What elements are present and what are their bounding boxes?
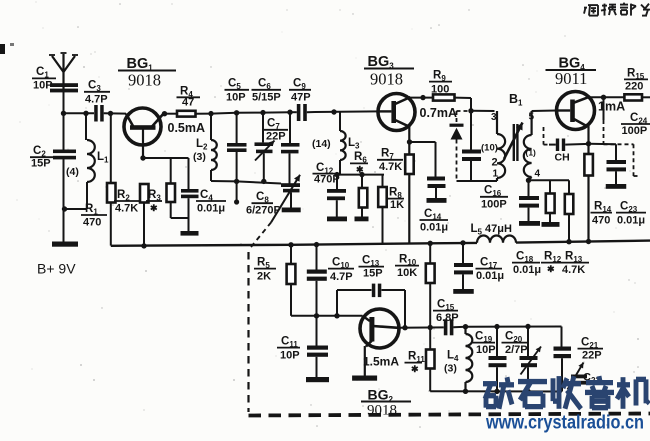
transformer B1 core xyxy=(514,124,518,161)
resistor R14 xyxy=(584,144,593,242)
wire osc tank top xyxy=(466,326,562,328)
junction BG4 emitter xyxy=(586,141,591,146)
capacitor C16 xyxy=(462,111,481,181)
dashed wire diode to node xyxy=(457,110,472,112)
resistor R12 xyxy=(546,180,555,222)
label C18 0.01u xyxy=(512,251,541,277)
rail wire xyxy=(111,241,650,246)
wire C9 to BG3 base xyxy=(315,110,378,113)
junction L4 top xyxy=(463,324,468,329)
diode D dashed top xyxy=(456,111,458,124)
wire BG1 collector junction xyxy=(162,111,167,116)
label C8 6/270P xyxy=(246,191,281,217)
battery terminal bar B+ xyxy=(52,242,78,247)
ground below C11 xyxy=(306,377,329,382)
svg-text:9018: 9018 xyxy=(370,70,403,89)
junction loop collector xyxy=(402,325,407,330)
caption 调频部分 (top right) xyxy=(584,3,650,16)
label B+ 9V xyxy=(37,261,76,277)
wire osc tank bottom xyxy=(430,389,562,395)
svg-text:0.01μ: 0.01μ xyxy=(476,270,504,282)
label (4) tap xyxy=(66,166,79,178)
label C7 22P xyxy=(264,118,289,143)
label R7 4.7K xyxy=(377,148,403,174)
junction C6 top xyxy=(260,110,265,115)
label BG1 9018 xyxy=(128,71,161,90)
junction rail C17 xyxy=(460,240,465,245)
svg-text:L3: L3 xyxy=(348,137,360,151)
inductor L5 xyxy=(477,236,516,243)
wire BG2 collector xyxy=(398,326,444,328)
label pin 3 xyxy=(491,112,497,123)
svg-text:B+ 9V: B+ 9V xyxy=(37,261,76,277)
diode D xyxy=(450,124,464,140)
label R13 4.7K xyxy=(561,251,589,277)
svg-text:100P: 100P xyxy=(481,199,507,211)
label 1.5mA xyxy=(363,355,399,369)
capacitor C11 xyxy=(307,316,328,377)
svg-text:10K: 10K xyxy=(397,267,417,279)
emitter resistor (unlabeled) xyxy=(167,158,189,218)
label CH xyxy=(555,152,570,164)
wire emitter to C23 xyxy=(589,143,617,146)
svg-text:220: 220 xyxy=(625,81,643,93)
resistor R2 xyxy=(107,183,116,203)
resistor R7 xyxy=(405,155,414,244)
svg-text:6.8P: 6.8P xyxy=(436,312,459,324)
variable capacitor C20 xyxy=(520,327,542,392)
watermark 矿石收音机 xyxy=(483,376,649,409)
node A junction xyxy=(61,111,66,116)
junction C5 top xyxy=(234,110,239,115)
capacitor C9 series xyxy=(290,104,315,121)
variable capacitor C6 xyxy=(255,113,275,182)
capacitor C15 xyxy=(444,319,466,335)
svg-text:✱: ✱ xyxy=(411,364,419,374)
label R12 star xyxy=(541,251,562,275)
label C6 5/15P xyxy=(252,78,282,104)
dashed stub left of CH xyxy=(544,127,550,145)
svg-text:0.01μ: 0.01μ xyxy=(197,203,225,215)
variable capacitor C8 xyxy=(281,183,300,207)
svg-text:100P: 100P xyxy=(622,125,648,137)
label R3 star xyxy=(146,189,162,213)
junction R6 top xyxy=(359,172,364,177)
ground below R6 xyxy=(355,217,369,222)
wire R9 to B1 node xyxy=(455,98,474,114)
junction tank bottom C5 xyxy=(234,179,239,184)
wire L3 bottom node xyxy=(337,174,384,176)
ground below C4 xyxy=(181,231,199,236)
watermark url xyxy=(485,412,644,434)
label L2 xyxy=(193,138,208,163)
wire R2 to rail xyxy=(110,203,112,246)
label BG1 line xyxy=(118,70,176,72)
svg-text:www.crystalradio.cn: www.crystalradio.cn xyxy=(485,412,644,434)
svg-text:15P: 15P xyxy=(31,158,51,170)
ground below C12 xyxy=(327,217,347,222)
label L3 xyxy=(348,137,360,151)
svg-text:CH: CH xyxy=(555,152,570,164)
capacitor C10 xyxy=(307,245,327,316)
junction L2 top xyxy=(208,111,213,116)
junction BG3 collector xyxy=(420,95,425,100)
junction L1 top xyxy=(83,111,88,116)
wire tank bottom xyxy=(211,180,237,182)
label C14 0.01u xyxy=(420,208,449,234)
label L1 xyxy=(97,151,109,165)
svg-text:✱: ✱ xyxy=(356,165,364,175)
wire collector to R4 xyxy=(163,113,177,115)
ground below BG2 emitter xyxy=(352,376,377,381)
inductor L3 xyxy=(334,112,346,175)
svg-text:4: 4 xyxy=(535,169,541,180)
wire BG2 base xyxy=(291,315,363,317)
label B1 xyxy=(509,92,523,108)
capacitor C4 xyxy=(181,158,199,231)
label C24 100P xyxy=(621,112,650,137)
svg-text:(3): (3) xyxy=(444,363,457,375)
label R10 10K xyxy=(395,254,419,280)
label R1 470 xyxy=(81,203,107,229)
svg-text:(14): (14) xyxy=(312,138,331,150)
capacitor C2 xyxy=(53,150,76,160)
label C23 0.01u xyxy=(616,201,646,227)
label 0.7mA xyxy=(420,106,458,120)
svg-text:22P: 22P xyxy=(266,131,286,143)
svg-text:(3): (3) xyxy=(193,151,206,163)
wire base node down to R2 xyxy=(110,113,112,183)
junction rail C10 xyxy=(314,242,319,247)
antenna xyxy=(49,53,78,91)
svg-text:4.7K: 4.7K xyxy=(379,161,402,173)
label C20 2/7P xyxy=(502,331,528,357)
junction C19 top xyxy=(494,324,499,329)
capacitor C13 xyxy=(372,284,382,298)
label (14) xyxy=(312,138,331,150)
label C15 6.8P xyxy=(433,299,459,325)
wire pin5 to BG4 base xyxy=(532,110,557,113)
svg-text:9018: 9018 xyxy=(128,71,161,90)
svg-text:10P: 10P xyxy=(33,80,53,92)
label C17 0.01u xyxy=(476,257,505,283)
ground below C8 xyxy=(282,208,301,213)
label R9 100 xyxy=(429,70,452,96)
svg-text:47P: 47P xyxy=(291,92,311,104)
label BG2 xyxy=(361,387,411,419)
inductor L2 xyxy=(211,114,217,181)
tuning gang dashed link xyxy=(251,223,271,248)
svg-text:470: 470 xyxy=(592,215,610,227)
junction rail R14 xyxy=(586,239,591,244)
transistor BG4 xyxy=(557,92,595,144)
resistor R5 xyxy=(287,245,296,316)
svg-text:L1: L1 xyxy=(97,151,109,165)
label L4 xyxy=(444,350,459,375)
resistor R11 xyxy=(426,328,435,392)
capacitor C5 xyxy=(227,113,247,182)
wire tank bottom to C8 xyxy=(237,181,281,183)
svg-text:2: 2 xyxy=(492,157,498,169)
svg-text:470P: 470P xyxy=(314,174,340,186)
wire antenna to node A xyxy=(63,92,65,113)
svg-text:L5: L5 xyxy=(471,223,483,237)
capacitor C21 xyxy=(554,347,572,392)
wire collector to R15 xyxy=(588,96,624,98)
svg-text:5: 5 xyxy=(529,112,535,123)
capacitor C18 xyxy=(519,180,539,221)
junction rail R13 xyxy=(566,239,571,244)
svg-text:100: 100 xyxy=(431,84,449,96)
wire emitter node right xyxy=(143,157,189,159)
label (10) xyxy=(481,143,498,154)
wire R4 to L2 node xyxy=(196,113,212,115)
feedback loop wire xyxy=(337,290,405,328)
svg-text:0.7mA: 0.7mA xyxy=(420,106,458,120)
capacitor CH xyxy=(549,139,589,152)
resistor R13 xyxy=(565,180,574,242)
wire emitter to C14 xyxy=(410,142,436,177)
wire R3 to rail xyxy=(141,203,146,249)
label C4 0.01u xyxy=(196,189,226,215)
label C16 100P xyxy=(480,185,508,211)
svg-text:0.01μ: 0.01μ xyxy=(420,222,448,234)
svg-text:L2: L2 xyxy=(196,138,208,152)
capacitor C1 xyxy=(50,83,78,92)
svg-text:15P: 15P xyxy=(363,268,383,280)
resistor R8 xyxy=(378,175,387,244)
capacitor C14 xyxy=(427,177,446,199)
capacitor C23 xyxy=(607,144,627,184)
svg-text:47μH: 47μH xyxy=(485,223,512,235)
label BG3 xyxy=(364,54,414,89)
capacitor C3 xyxy=(94,105,104,122)
svg-text:2K: 2K xyxy=(257,271,271,283)
wire C3 to base junction xyxy=(104,112,126,114)
label C1 10P xyxy=(32,66,56,92)
svg-text:B1: B1 xyxy=(509,92,523,108)
svg-text:0.01μ: 0.01μ xyxy=(513,264,541,276)
svg-text:C1: C1 xyxy=(36,66,49,80)
label BG4 xyxy=(546,56,597,89)
transformer B1 tuning arrow xyxy=(504,123,523,160)
svg-text:1K: 1K xyxy=(390,199,404,211)
label C9 47P xyxy=(289,78,311,104)
junction rail R5 xyxy=(288,242,293,247)
label 1mA xyxy=(598,100,625,114)
scan edge mark xyxy=(0,43,14,54)
svg-text:4.7K: 4.7K xyxy=(562,264,585,276)
label C22 xyxy=(583,372,600,386)
junction BG1 base node xyxy=(108,111,113,116)
svg-text:47: 47 xyxy=(182,97,194,109)
junction base C10 xyxy=(314,313,319,318)
variable capacitor C22 xyxy=(568,363,588,390)
label pin 5 xyxy=(529,112,535,123)
junction BG3 emitter xyxy=(407,139,412,144)
junction C20 top xyxy=(525,324,530,329)
wire node A to C3 xyxy=(64,112,95,114)
dashed box around C23 xyxy=(604,97,639,176)
wire L1 bottom jog xyxy=(65,182,88,209)
svg-text:10P: 10P xyxy=(280,350,300,362)
resistor R3 xyxy=(140,184,149,203)
wire top L2 to C5 xyxy=(211,112,237,115)
dashed box left side xyxy=(247,252,249,412)
label C3 4.7P xyxy=(84,80,110,106)
svg-text:22P: 22P xyxy=(582,350,602,362)
wire node A down xyxy=(63,113,65,150)
inductor L1 xyxy=(86,113,95,182)
label C19 10P xyxy=(472,331,496,357)
wire C16 bottom to B1 pin1 xyxy=(457,180,498,182)
label C13 15P xyxy=(359,255,385,280)
label C21 22P xyxy=(578,337,604,362)
junction C12 top xyxy=(334,172,339,177)
svg-text:9011: 9011 xyxy=(555,69,587,88)
wire C6 to C7 node xyxy=(263,111,290,113)
diode D dashed bottom xyxy=(456,140,458,182)
svg-text:✱: ✱ xyxy=(547,264,555,274)
capacitor C7 xyxy=(281,112,300,184)
inductor L4 xyxy=(466,327,473,392)
resistor R10 xyxy=(426,241,435,328)
svg-text:(10): (10) xyxy=(481,143,498,154)
label R2 4.7K xyxy=(114,189,140,215)
capacitor C12 xyxy=(327,175,346,217)
label pin 1 xyxy=(493,169,499,180)
wire B1 node to pin3 xyxy=(471,110,495,112)
label R14 470 xyxy=(591,201,613,227)
dashed box bottom xyxy=(249,414,650,416)
svg-text:0.5mA: 0.5mA xyxy=(168,121,206,135)
transistor BG3 xyxy=(378,94,415,155)
svg-text:4.7P: 4.7P xyxy=(85,94,108,106)
svg-text:R6: R6 xyxy=(354,151,367,165)
wire osc top corner down xyxy=(561,327,563,347)
wire collector to R9 xyxy=(411,97,434,99)
label R11 star xyxy=(405,351,426,375)
label C5 10P xyxy=(225,78,250,104)
svg-text:L4: L4 xyxy=(447,350,459,364)
svg-text:4.7K: 4.7K xyxy=(115,203,138,215)
svg-text:(1): (1) xyxy=(526,148,537,158)
ground below C17 xyxy=(453,289,474,294)
svg-text:10P: 10P xyxy=(226,92,246,104)
junction collector R10 xyxy=(428,325,433,330)
label R5 2K xyxy=(254,257,276,283)
label R15 220 xyxy=(624,68,648,93)
label C11 10P xyxy=(277,336,300,362)
capacitor C19 xyxy=(489,327,507,392)
transistor BG2 xyxy=(360,309,399,376)
ground below C18 xyxy=(519,221,540,226)
junction tank bottom C6 xyxy=(261,179,266,184)
label pin 2 xyxy=(492,157,498,169)
transistor BG1 xyxy=(124,108,164,158)
svg-text:470: 470 xyxy=(83,217,101,229)
label (1) xyxy=(526,148,537,158)
label R6 star xyxy=(350,151,368,175)
svg-text:10P: 10P xyxy=(476,344,496,356)
resistor R9 xyxy=(433,94,455,100)
ground below C14 xyxy=(427,198,447,203)
svg-text:1.5mA: 1.5mA xyxy=(363,355,399,369)
svg-text:(4): (4) xyxy=(66,166,79,178)
svg-text:5/15P: 5/15P xyxy=(252,92,281,104)
label pin 4 xyxy=(535,169,541,180)
capacitor C17 xyxy=(454,243,473,289)
svg-text:9018: 9018 xyxy=(367,403,397,419)
tuning gang arrow xyxy=(271,175,300,223)
label R4 47 xyxy=(177,86,201,109)
label C12 470P xyxy=(313,162,340,186)
svg-text:1mA: 1mA xyxy=(598,100,625,114)
svg-text:4.7P: 4.7P xyxy=(330,271,353,283)
label C10 4.7P xyxy=(328,257,354,284)
label C2 15P xyxy=(30,145,54,170)
label L5 47uH xyxy=(471,223,512,237)
wire pin4 node xyxy=(526,178,569,183)
ground below R12 xyxy=(542,222,560,227)
resistor R4 xyxy=(177,111,196,117)
junction L3 top xyxy=(331,109,336,114)
wire C5 to C6 node xyxy=(237,112,263,114)
junction base loop xyxy=(334,313,339,318)
junction C7 top xyxy=(287,110,292,115)
junction BG1 emitter node xyxy=(140,155,145,160)
resistor R6 xyxy=(359,175,368,217)
junction L1 bottom node xyxy=(62,206,67,211)
transformer B1 primary xyxy=(497,111,505,181)
transformer B1 secondary xyxy=(524,111,532,180)
wire R15 to edge xyxy=(642,96,650,98)
svg-text:2/7P: 2/7P xyxy=(505,344,528,356)
label 0.5mA xyxy=(168,121,206,135)
svg-text:3: 3 xyxy=(491,112,497,123)
wire C2 to ground node xyxy=(63,159,65,242)
label BG1 xyxy=(127,56,154,73)
junction BG4 collector xyxy=(601,95,606,100)
svg-text:0.01μ: 0.01μ xyxy=(617,215,645,227)
ground below C23 xyxy=(606,184,627,189)
svg-text:1: 1 xyxy=(493,169,499,180)
resistor R15 xyxy=(624,94,642,100)
svg-text:✱: ✱ xyxy=(150,203,158,213)
stub below C5 node xyxy=(234,181,239,204)
label R8 1K xyxy=(386,187,404,212)
